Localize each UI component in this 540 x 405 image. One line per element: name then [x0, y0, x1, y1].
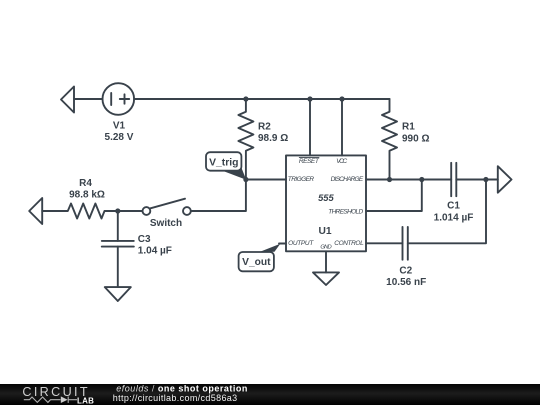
op-amp U1 555 box [286, 155, 366, 251]
svg-text:5.28 V: 5.28 V [105, 132, 134, 143]
svg-text:R1: R1 [402, 121, 415, 132]
ground port (right output) [498, 166, 512, 193]
node V_trig (trigger junction) [243, 177, 248, 182]
svg-text:RESET: RESET [299, 158, 320, 165]
ground (below U1) [313, 272, 339, 285]
svg-text:V_trig: V_trig [209, 158, 238, 169]
svg-text:C2: C2 [399, 265, 412, 276]
wire (GND pin) [325, 251, 327, 272]
wire (top rail) [134, 98, 389, 100]
node (VCC top) [339, 96, 344, 101]
svg-text:555: 555 [318, 193, 334, 204]
resistor R2 [238, 99, 253, 180]
logo resistor-diode squiggle [24, 397, 77, 403]
svg-text:CONTROL: CONTROL [334, 240, 364, 247]
wire (V1 left lead) [74, 98, 103, 100]
wire (C2 up to C1 node) [408, 180, 486, 244]
resistor R4 [42, 204, 118, 219]
svg-text:10.56 nF: 10.56 nF [386, 277, 426, 288]
svg-text:98.9 Ω: 98.9 Ω [258, 133, 288, 144]
voltage source V1 [103, 83, 135, 115]
svg-text:R2: R2 [258, 122, 271, 133]
pin overline (RESET bar) [299, 156, 319, 158]
svg-text:THRESHOLD: THRESHOLD [328, 209, 363, 216]
svg-text:GND: GND [320, 244, 331, 250]
ground (below C3) [105, 287, 131, 301]
svg-text:C1: C1 [447, 201, 460, 212]
node (C1 right junction) [483, 177, 488, 182]
logo diode triangle [61, 396, 68, 403]
svg-text:990 Ω: 990 Ω [402, 134, 429, 145]
ground port (left of V1) [61, 87, 74, 113]
node (R4 / switch / C3) [115, 208, 120, 213]
wire (C1 to output port) [456, 179, 498, 181]
wire (RESET riser) [309, 99, 311, 155]
svg-text:efoulds / one shot operation: efoulds / one shot operation [116, 383, 248, 393]
switch SW1 [143, 199, 191, 215]
node (threshold junction) [419, 177, 424, 182]
svg-text:R4: R4 [79, 178, 92, 189]
svg-text:98.8 kΩ: 98.8 kΩ [69, 190, 105, 201]
node (R1 bottom) [387, 177, 392, 182]
wire (TRIGGER pin) [246, 179, 286, 181]
wire (CONTROL to C2) [366, 242, 403, 244]
node (R2 top) [243, 96, 248, 101]
wire (VCC riser) [341, 99, 343, 155]
svg-text:DISCHARGE: DISCHARGE [331, 176, 364, 183]
svg-text:U1: U1 [319, 225, 332, 237]
wire (trigger down to switch) [191, 180, 246, 212]
svg-text:http://circuitlab.com/cd586a3: http://circuitlab.com/cd586a3 [113, 393, 238, 403]
footer bar [0, 384, 540, 405]
node (RESET top) [307, 96, 312, 101]
svg-text:Switch: Switch [150, 218, 182, 229]
capacitor C1 [451, 163, 456, 196]
svg-text:VCC: VCC [336, 158, 347, 165]
wire (DISCHARGE to C1) [366, 179, 451, 181]
ground port (left of R4) [29, 198, 42, 224]
svg-text:1.014 µF: 1.014 µF [434, 213, 474, 224]
capacitor C2 [403, 227, 408, 260]
resistor R1 [382, 99, 397, 180]
svg-text:TRIGGER: TRIGGER [288, 176, 315, 183]
svg-text:LAB: LAB [77, 396, 94, 405]
svg-text:C3: C3 [138, 234, 151, 245]
svg-text:V1: V1 [113, 121, 126, 132]
wire (OUTPUT pin stub) [279, 243, 286, 245]
svg-text:V_out: V_out [242, 257, 271, 268]
flag V_trig [206, 152, 246, 180]
capacitor C3 [102, 211, 134, 287]
flag V_out [239, 244, 281, 272]
svg-text:1.04 µF: 1.04 µF [138, 246, 172, 257]
wire (switch left lead) [118, 210, 143, 212]
wire (THRESHOLD riser) [366, 180, 422, 212]
svg-text:OUTPUT: OUTPUT [288, 240, 314, 247]
